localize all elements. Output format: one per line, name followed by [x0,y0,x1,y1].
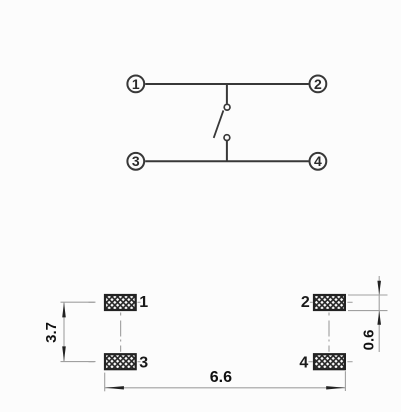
dimension 6.6 (bottom) [105,369,346,392]
centerline vertical left between pad1 and pad3 [120,313,122,352]
dimension 3.7 (left) [43,302,95,361]
ext line bottom [348,310,388,312]
centerline ticks pad3 [89,361,141,363]
pin circle 3 [127,153,144,170]
pin circle 1 [127,76,144,93]
svg-text:2: 2 [314,76,322,92]
ext line top [61,301,96,303]
switch lever [214,110,224,137]
pin circle 4 [310,153,327,170]
dimension 0.6 (right) [348,276,388,352]
svg-text:1: 1 [132,76,140,92]
wire bottom: pin3 to pin4 [145,160,308,162]
arrow down to pad top [377,281,381,295]
pin circle 2 [310,76,327,93]
svg-text:4: 4 [314,153,322,169]
wire: lower contact to bottom wire [226,141,228,161]
arrow left [105,386,124,389]
pad 3 (bottom-left) [105,354,136,369]
arrow down [62,346,66,361]
svg-text:0.6: 0.6 [361,329,378,350]
wire: top wire to upper contact [226,84,228,104]
svg-text:1: 1 [139,294,148,311]
centerline ticks pad1 [89,301,141,303]
ext line right [344,371,346,391]
svg-text:6.6: 6.6 [210,369,232,386]
centerline ticks pad2 [310,301,353,303]
centerline vertical right between pad2 and pad4 [328,313,330,352]
svg-text:2: 2 [301,294,310,311]
svg-text:3: 3 [139,354,148,371]
svg-text:3: 3 [132,153,140,169]
pad 4 (bottom-right) [314,354,345,369]
centerlines (dash-dot, light) [89,302,353,361]
switch upper contact [224,104,230,110]
svg-text:4: 4 [299,354,308,371]
arrow up [62,302,66,317]
dim line [63,302,65,361]
ext line left [104,373,106,392]
pad 1 (top-left) [105,295,136,310]
switch lower contact [224,135,230,141]
wire top: pin1 to pin2 [145,83,308,85]
arrow right [326,386,345,389]
pad 2 (top-right) [314,295,345,310]
svg-text:3.7: 3.7 [43,322,60,343]
centerline ticks pad4 [309,361,353,363]
ext line top [348,294,388,296]
arrow up to pad bottom [377,311,381,325]
ext line bottom [61,361,96,363]
dim line [105,387,346,389]
dim line [378,276,380,352]
